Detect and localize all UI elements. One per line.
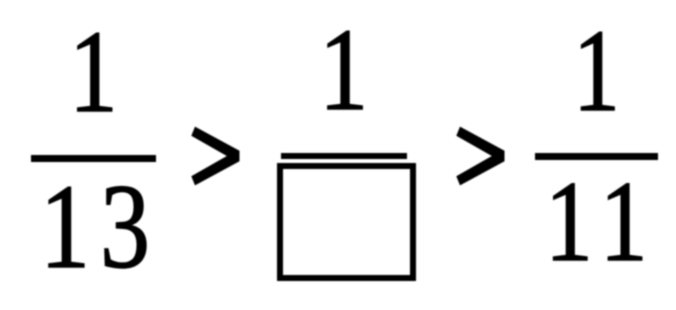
fraction bar of right fraction bbox=[535, 153, 657, 160]
empty box denominator of middle fraction bbox=[277, 163, 416, 281]
fraction bar of left fraction bbox=[31, 155, 156, 162]
numerator 1 of right fraction bbox=[573, 13, 620, 130]
denominator 13 of left fraction bbox=[40, 168, 160, 289]
denominator 11 of right fraction bbox=[545, 164, 658, 279]
numerator 1 of left fraction bbox=[69, 14, 118, 131]
numerator 1 of middle fraction bbox=[319, 12, 368, 129]
fraction bar of middle fraction bbox=[281, 153, 407, 159]
